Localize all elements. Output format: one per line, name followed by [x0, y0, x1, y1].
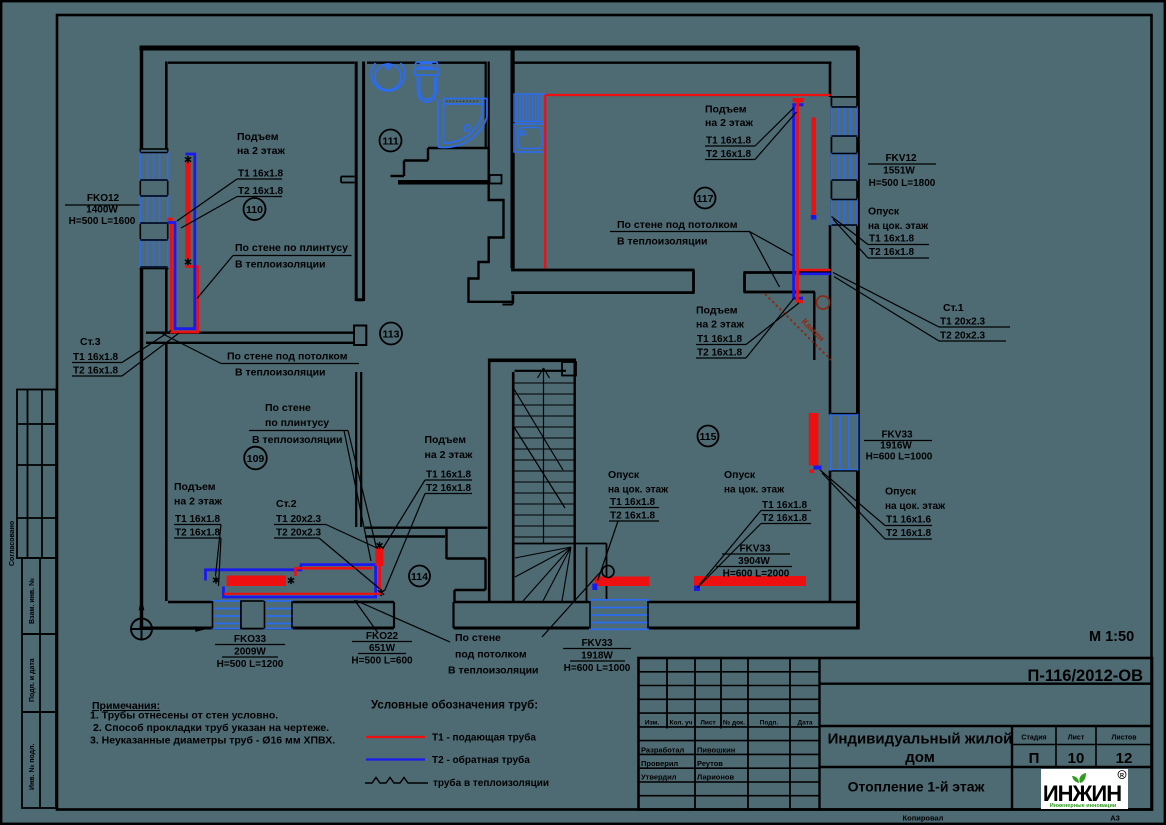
callout plintus 109 b — [344, 431, 371, 562]
riser T1 red drop — [798, 102, 804, 302]
underline T1 r114 — [425, 479, 472, 481]
stair treads — [513, 383, 575, 537]
underline FKO22 watt — [358, 653, 406, 655]
radiator FKV12 section 2 — [832, 154, 858, 181]
underline FKV33-3904 name — [722, 553, 790, 555]
svg-text:Согласовано: Согласовано — [9, 521, 16, 566]
fireplace flue circle — [817, 296, 830, 309]
radiator FKV33 1918W (bottom) — [590, 600, 648, 630]
callout st2 b — [319, 538, 380, 589]
underline FKO12 — [65, 204, 140, 206]
corridor wall A (110|111) — [356, 62, 363, 302]
svg-text:R: R — [1120, 773, 1124, 779]
underline T1 r109 — [174, 524, 221, 526]
callout opusk 3904 a — [700, 511, 761, 585]
underline T2 r114 — [425, 493, 472, 495]
logo leaves — [1079, 773, 1086, 783]
underline T2 r110 — [237, 196, 282, 198]
callout opusk right a — [820, 470, 885, 526]
svg-text:Т1 16х1.8: Т1 16х1.8 — [238, 169, 283, 180]
svg-text:Т2 16х1.8: Т2 16х1.8 — [762, 513, 807, 524]
svg-text:на 2 этаж: на 2 этаж — [174, 496, 222, 508]
radiator FKO12 assembly base — [140, 149, 167, 269]
FKV33-1916 blue tick — [814, 466, 822, 470]
svg-text:110: 110 — [246, 204, 263, 216]
riser St.2 thick red — [375, 548, 383, 567]
svg-text:Т1 16х1.8: Т1 16х1.8 — [762, 500, 807, 511]
top exterior wall band — [140, 46, 859, 51]
underline FKV33-3904 watt — [716, 566, 792, 568]
FKV33-1916 red dot — [810, 470, 815, 474]
pipe T1 kitchen wall drop — [544, 95, 546, 269]
node 114 — [409, 566, 430, 587]
115 top wall, right part — [744, 273, 831, 293]
svg-text:Копировал: Копировал — [903, 814, 944, 823]
title block row lines — [639, 672, 820, 796]
underline pod potolkom 113 — [221, 363, 359, 365]
underline T1 r110 — [237, 178, 282, 180]
underline po stene plintus 110 — [233, 255, 352, 257]
pipe T1 St.3 path — [168, 219, 198, 332]
svg-text:на цок. этаж: на цок. этаж — [885, 501, 946, 512]
svg-text:Лист: Лист — [700, 720, 715, 727]
callout opusk mid — [598, 521, 619, 581]
node 117 — [695, 188, 716, 209]
node 110 — [244, 198, 266, 220]
stair drop blue tick — [592, 584, 597, 591]
stair top door jamb — [562, 362, 576, 376]
svg-text:на 2 этаж: на 2 этаж — [237, 145, 285, 157]
stamp doc number row — [820, 683, 1153, 685]
svg-text:Проверил: Проверил — [641, 759, 678, 768]
svg-text:По стене под потолком: По стене под потолком — [227, 351, 348, 363]
callout r114 a — [383, 480, 426, 549]
svg-text:Опуск: Опуск — [608, 469, 640, 481]
svg-text:Т1 16х1.8: Т1 16х1.8 — [610, 497, 655, 508]
corner shower (room 111) — [438, 99, 487, 148]
svg-text:Т2 16х1.8: Т2 16х1.8 — [175, 528, 220, 539]
asterisk bottom St.3 — [185, 258, 191, 265]
right wall inner face — [829, 62, 832, 602]
svg-text:Отопление 1-й этаж: Отопление 1-й этаж — [848, 779, 986, 795]
svg-text:Т2 16х1.8: Т2 16х1.8 — [610, 511, 655, 522]
svg-text:Т1 16х1.8: Т1 16х1.8 — [706, 136, 751, 147]
svg-text:Ст.3: Ст.3 — [80, 336, 101, 348]
svg-text:Стадия: Стадия — [1021, 735, 1046, 742]
svg-text:Подъем: Подъем — [696, 305, 738, 317]
callout potolok 117 b — [750, 232, 780, 288]
svg-text:Разработал: Разработал — [641, 746, 685, 755]
stair break lines — [514, 389, 565, 508]
bathroom lower wall / shower step — [391, 148, 489, 176]
datum axis arrows — [140, 602, 205, 632]
svg-text:1. Трубы отнесены от стен усло: 1. Трубы отнесены от стен условно. — [90, 710, 278, 722]
asterisk St.2 riser bottom — [378, 589, 384, 596]
callout st2 a — [326, 525, 378, 549]
radiator FKO33 section 1 — [213, 601, 242, 629]
underline T2 st2 — [274, 537, 319, 539]
svg-text:По стене под потолком: По стене под потолком — [617, 219, 738, 231]
underline T2 r109 — [174, 537, 221, 539]
underline FKV33-1916 — [864, 440, 932, 442]
svg-text:Т2 16х1.8: Т2 16х1.8 — [238, 186, 283, 197]
St.2 red down leg — [378, 566, 381, 590]
svg-text:2. Способ прокладки труб указа: 2. Способ прокладки труб указан на черте… — [93, 722, 329, 734]
bottom wall door jambs — [394, 602, 454, 628]
svg-text:H=600 L=1000: H=600 L=1000 — [564, 663, 631, 674]
svg-text:FKV12: FKV12 — [885, 153, 917, 164]
underline T1 st3 — [72, 362, 122, 364]
svg-text:По стене: По стене — [265, 402, 311, 414]
svg-text:По стене: По стене — [455, 632, 501, 644]
svg-text:H=600 L=1000: H=600 L=1000 — [866, 452, 933, 463]
svg-text:FKO22: FKO22 — [366, 631, 399, 642]
svg-text:Ст.2: Ст.2 — [276, 498, 297, 510]
svg-text:3. Неуказанные диаметры труб -: 3. Неуказанные диаметры труб - Ø16 мм ХП… — [90, 735, 335, 747]
callout r117 a — [755, 108, 794, 147]
svg-text:Т1 - подающая труба: Т1 - подающая труба — [432, 732, 536, 744]
wall band 111/113 — [398, 180, 490, 185]
callout opusk 3904 b — [697, 524, 761, 589]
riser blue branch to wall — [794, 272, 831, 275]
corridor wall B (109|114) — [356, 372, 361, 527]
legend T1 sample line — [366, 736, 425, 738]
pipe T2 St.3 path — [168, 154, 195, 329]
svg-text:1916W: 1916W — [880, 441, 912, 452]
radiator drop bar (stair) — [595, 577, 650, 587]
callout fko22 — [355, 600, 379, 633]
svg-text:FKO33: FKO33 — [234, 634, 267, 645]
svg-text:H=500 L=1200: H=500 L=1200 — [217, 659, 284, 670]
svg-text:Дата: Дата — [797, 720, 812, 727]
svg-text:П: П — [1029, 750, 1040, 767]
svg-text:Т1 16х1.8: Т1 16х1.8 — [426, 470, 471, 481]
svg-text:111: 111 — [382, 135, 399, 147]
svg-text:на цок. этаж: на цок. этаж — [868, 221, 929, 232]
svg-text:Т2 16х1.8: Т2 16х1.8 — [869, 247, 914, 258]
FKV12 bar blue tail — [811, 215, 817, 220]
svg-text:В теплоизоляции: В теплоизоляции — [235, 259, 326, 271]
svg-text:H=600 L=2000: H=600 L=2000 — [723, 569, 790, 580]
riser to 2nd floor (kitchen) T2 blue — [794, 105, 804, 298]
winder fan lines — [515, 547, 571, 601]
svg-text:FKV33: FKV33 — [739, 544, 771, 555]
title block outer — [639, 658, 1153, 810]
radiator FKO12 section 2 — [140, 196, 167, 223]
svg-text:По стене по плинтусу: По стене по плинтусу — [235, 242, 348, 254]
svg-text:Изм.: Изм. — [645, 720, 660, 727]
underline T2 r117 — [705, 159, 755, 161]
svg-text:Т1 20х2.3: Т1 20х2.3 — [940, 317, 985, 328]
underline T2 fkv12 — [868, 257, 929, 259]
svg-text:на 2 этаж: на 2 этаж — [705, 117, 753, 129]
underline FKV33-1918 name — [563, 648, 631, 650]
underline T1 r115 — [696, 344, 746, 346]
underline T1 fkv12 — [868, 244, 929, 246]
svg-text:на цок. этаж: на цок. этаж — [724, 485, 785, 496]
svg-text:Опуск: Опуск — [868, 206, 900, 218]
svg-text:Т1 16х1.8: Т1 16х1.8 — [869, 234, 914, 245]
asterisk St.2 left — [213, 576, 219, 583]
svg-text:Т2 16х1.8: Т2 16х1.8 — [426, 483, 471, 494]
svg-text:под потолком: под потолком — [455, 649, 527, 661]
underline pod potolkom 117 — [610, 231, 750, 233]
svg-text:H=500 L=1600: H=500 L=1600 — [69, 216, 136, 227]
svg-text:В теплоизоляции: В теплоизоляции — [448, 665, 539, 677]
radiator FKV33-1916 supply bar — [809, 413, 819, 466]
svg-text:на 2 этаж: на 2 этаж — [425, 449, 473, 461]
kitchen left wall bar — [511, 50, 515, 269]
svg-text:П-116/2012-ОВ: П-116/2012-ОВ — [1027, 667, 1143, 685]
svg-text:2009W: 2009W — [234, 647, 266, 658]
stadia column divider — [1011, 726, 1013, 810]
svg-text:В теплоизоляции: В теплоизоляции — [235, 367, 326, 379]
radiator bar St.2 — [227, 576, 287, 587]
svg-text:№ док.: № док. — [723, 720, 745, 727]
svg-text:114: 114 — [411, 571, 428, 583]
kitchen counter hatch — [514, 94, 546, 122]
svg-text:В теплоизоляции: В теплоизоляции — [252, 434, 343, 446]
svg-text:651W: 651W — [369, 643, 396, 654]
svg-text:Т2 16х1.8: Т2 16х1.8 — [886, 528, 931, 539]
svg-text:Подъем: Подъем — [705, 104, 747, 116]
callout r110 a — [177, 179, 237, 221]
svg-text:по плинтусу: по плинтусу — [265, 417, 329, 429]
callout r109 b — [219, 538, 222, 586]
callout st3 b — [122, 333, 179, 376]
stair right wall — [574, 362, 576, 602]
svg-text:Подъем: Подъем — [425, 434, 467, 446]
kitchen bottom wall (115 top wall, left part) — [511, 270, 695, 293]
logo R mark — [1118, 771, 1126, 779]
interior wall 109/114 band — [365, 528, 488, 537]
riser red branch to wall — [798, 269, 831, 272]
callout potolok bottom a — [356, 601, 450, 643]
radiator FKV12 section 1 — [832, 107, 858, 136]
svg-text:Реутов: Реутов — [697, 759, 723, 768]
underline T2 opusk right — [885, 538, 932, 540]
svg-text:FKV33: FKV33 — [581, 638, 613, 649]
svg-text:на 2 этаж: на 2 этаж — [696, 319, 744, 331]
svg-text:117: 117 — [697, 193, 714, 205]
kitchen sink — [514, 124, 546, 152]
bathroom right wall — [486, 62, 489, 149]
callout opusk right b — [822, 473, 885, 539]
callout st3 a — [122, 331, 171, 363]
svg-text:FKV33: FKV33 — [881, 430, 913, 441]
pipe T1 St.2 path — [296, 568, 372, 576]
callout st1 b — [834, 277, 939, 342]
svg-text:FKO12: FKO12 — [87, 193, 120, 204]
asterisk top St.3 — [185, 156, 191, 163]
corridor niche walls — [447, 528, 486, 602]
callout r110 b — [181, 197, 237, 229]
svg-text:Т2 16х1.8: Т2 16х1.8 — [697, 348, 742, 359]
underline T1 opusk right — [885, 525, 932, 527]
svg-text:H=500 L=600: H=500 L=600 — [351, 656, 413, 667]
top wall inner face lines — [168, 62, 832, 64]
svg-text:113: 113 — [383, 328, 400, 340]
radiator FKV33 1916W box — [831, 415, 858, 471]
svg-text:дом: дом — [905, 749, 935, 766]
node 111 — [380, 130, 402, 152]
bottom exterior wall faces — [168, 601, 856, 604]
underline T1 opusk 3904 — [761, 510, 811, 512]
underline T2 opusk 3904 — [761, 523, 811, 525]
svg-text:Подъем: Подъем — [174, 481, 216, 493]
radiator FKV12 section 3 — [832, 200, 858, 226]
svg-text:Т1 16х1.8: Т1 16х1.8 — [73, 352, 118, 363]
callout plintus 110 — [197, 256, 233, 299]
left margin cell table — [17, 390, 56, 559]
radiator FKV12 spacer boxes — [832, 97, 858, 200]
radiator FKV12 assembly base — [832, 97, 858, 225]
toilet (room 111) — [415, 62, 439, 102]
svg-text:Инженерные инновации: Инженерные инновации — [1050, 803, 1116, 809]
svg-text:Т2 16х1.8: Т2 16х1.8 — [706, 149, 751, 160]
svg-text:Подп.: Подп. — [760, 720, 779, 727]
svg-text:12: 12 — [1116, 750, 1133, 767]
callout r114 b — [385, 494, 426, 592]
sink (room 111) — [371, 63, 405, 91]
legend T2 sample line — [366, 758, 425, 760]
underline T1 r117 — [705, 145, 755, 147]
svg-text:Т1 16х1.6: Т1 16х1.6 — [886, 515, 931, 526]
svg-text:Подъем: Подъем — [237, 131, 279, 143]
underline T2 st3 — [72, 375, 122, 377]
pipe T1 kitchen ceiling run — [545, 94, 830, 96]
FKV33-3904 blue tick — [694, 586, 700, 592]
valve circle near stair drop — [602, 566, 614, 578]
pipe T2 St.2 blue left run — [206, 565, 376, 597]
svg-text:1918W: 1918W — [581, 651, 613, 662]
underline FKV12 — [868, 163, 936, 165]
title block verticals — [667, 658, 820, 810]
kitchen wall bottom notch — [502, 295, 512, 305]
underline po stene plintus 109 — [249, 430, 348, 432]
svg-text:Кол. уч: Кол. уч — [670, 720, 693, 727]
svg-text:Ларионов: Ларионов — [697, 773, 735, 782]
node 109 — [244, 447, 267, 470]
fireplace flue dashed line — [765, 294, 831, 360]
svg-text:М 1:50: М 1:50 — [1089, 629, 1134, 645]
svg-text:Опуск: Опуск — [885, 486, 917, 498]
legend insulated pipe symbol — [365, 778, 428, 784]
underline T1 st2 — [274, 524, 326, 526]
winder steps — [513, 544, 606, 602]
svg-text:109: 109 — [247, 453, 265, 465]
asterisk St.2 riser top — [376, 542, 382, 549]
door jamb 113 top — [490, 175, 502, 184]
pipe T1 riser St.3 thick bar — [185, 162, 190, 259]
svg-text:Лист: Лист — [1068, 735, 1085, 742]
svg-text:1400W: 1400W — [86, 205, 118, 216]
underline T2 r115 — [696, 357, 746, 359]
asterisk St.2 right — [288, 577, 294, 584]
chimney duct shaft outline — [469, 148, 514, 302]
svg-text:115: 115 — [700, 431, 717, 443]
radiator drop bar FKV33-3904 — [694, 576, 806, 586]
svg-text:Взам. инв. №: Взам. инв. № — [28, 578, 36, 624]
underline FKO22 name — [352, 641, 412, 643]
svg-text:Т2 16х1.8: Т2 16х1.8 — [73, 366, 118, 377]
stair shaft left wall — [489, 359, 513, 602]
door jamb post room113 — [354, 326, 366, 346]
interior wall room110/109 — [146, 333, 354, 343]
riser T1 red cap — [793, 98, 804, 102]
logo box — [1041, 769, 1128, 809]
fireplace niche wall — [813, 292, 815, 360]
node 115 — [698, 426, 719, 447]
radiator FKO33 spacer — [241, 601, 265, 629]
callout r109 a — [216, 525, 222, 577]
svg-text:Условные обозначения труб:: Условные обозначения труб: — [371, 700, 538, 712]
callout fkv12 b — [833, 219, 868, 258]
callout r115 b — [746, 298, 795, 359]
svg-text:Подп. и дата: Подп. и дата — [29, 658, 36, 702]
left margin stamp boxes — [22, 558, 56, 808]
svg-text:А3: А3 — [1110, 814, 1120, 823]
svg-text:1551W: 1551W — [883, 166, 915, 177]
St.2 red floor return — [224, 593, 381, 595]
callout fkv12 a — [832, 217, 869, 245]
svg-text:Т2 - обратная труба: Т2 - обратная труба — [432, 754, 530, 766]
underline T2 opusk mid — [609, 520, 659, 522]
radiator FKO12 spacer boxes — [140, 180, 167, 240]
svg-text:10: 10 — [1068, 750, 1085, 767]
svg-text:3904W: 3904W — [738, 556, 770, 567]
callout pod potolkom 113 — [160, 333, 221, 364]
svg-text:Опуск: Опуск — [724, 469, 756, 481]
underline FKO33 watt — [222, 656, 278, 658]
svg-text:Индивидуальный жилой: Индивидуальный жилой — [828, 731, 1013, 748]
node 113 — [380, 323, 402, 345]
svg-text:Т1 16х1.8: Т1 16х1.8 — [697, 334, 742, 345]
callout st1 a — [833, 273, 939, 328]
underline FKO33 name — [215, 644, 285, 646]
svg-text:Т2 20х2.3: Т2 20х2.3 — [940, 331, 985, 342]
callout potolok bottom b — [542, 573, 600, 638]
underline FKV33-1918 watt — [570, 660, 625, 662]
callout r115 a — [746, 303, 799, 345]
callout r117 b — [755, 112, 797, 160]
underline T1 st1 — [939, 326, 1010, 328]
stair walking line with arrow — [538, 368, 550, 544]
sheet title divider — [820, 766, 1153, 768]
svg-text:Т1 16х1.8: Т1 16х1.8 — [175, 514, 220, 525]
svg-text:H=500 L=1800: H=500 L=1800 — [869, 178, 936, 189]
svg-text:Утвердил: Утвердил — [641, 773, 677, 782]
callout plintus 109 a — [348, 431, 377, 549]
underline T2 st1 — [939, 340, 1006, 342]
svg-text:Инв. № подл.: Инв. № подл. — [28, 743, 36, 790]
radiator FKV12 supply bar — [811, 118, 816, 216]
radiator FKO12 section 3 — [140, 240, 167, 267]
underline T1 opusk mid — [609, 507, 659, 509]
stair shaft top wall — [488, 359, 576, 363]
svg-text:Ст.1: Ст.1 — [943, 302, 964, 314]
right exterior wall bar — [856, 47, 860, 630]
svg-text:В теплоизоляции: В теплоизоляции — [617, 236, 708, 248]
stamp title divider — [820, 725, 1153, 727]
svg-text:труба в теплоизоляции: труба в теплоизоляции — [433, 777, 549, 789]
svg-text:Т2 20х2.3: Т2 20х2.3 — [276, 528, 321, 539]
callout potolok 117 a — [750, 232, 793, 256]
datum axis circle — [131, 619, 152, 640]
radiator FKO33 section 2 — [265, 601, 293, 629]
svg-text:на цок. этаж: на цок. этаж — [608, 485, 669, 496]
svg-text:Т1 20х2.3: Т1 20х2.3 — [276, 514, 321, 525]
